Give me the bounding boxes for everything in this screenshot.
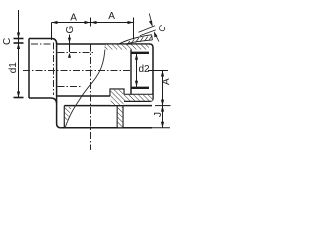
left cylinder bottom [29,98,57,103]
svg-text:A: A [70,13,77,24]
broken-out section boundary arc [65,44,106,128]
svg-text:d1: d1 [8,62,19,74]
hidden bore line upper [58,52,95,54]
flange bottom [61,127,152,129]
hatch regions [65,45,152,128]
svg-text:A: A [108,11,115,22]
svg-text:G: G [65,26,76,34]
dimension C (left) [14,10,24,43]
svg-text:d2: d2 [139,64,151,75]
svg-text:J: J [153,112,164,117]
leg left wall partial hatch [65,107,72,122]
horizontal main axis [23,70,130,72]
cap top right corner + right face [124,44,153,101]
dimension d1 (left) [14,43,24,98]
leg right wall [118,107,123,127]
cap cavity left wall [130,44,132,96]
hidden bore line lower [58,86,83,88]
svg-text:A: A [161,78,172,85]
barrel bottom [57,95,110,97]
hatch block left/top [110,89,124,96]
top band [104,45,149,50]
dimension d2 [137,54,169,87]
barrel top [56,43,150,45]
bottom L block [111,90,153,105]
dimension C (top right, tilted) [139,14,159,42]
dimension A2 (top right) [91,18,134,40]
leg inner cavity [63,106,65,128]
svg-text:C: C [2,38,13,45]
gasket washer (tilted, hatched) [119,35,153,46]
left cylinder left edge [28,39,30,99]
bore thread bars [131,52,149,54]
center lines (dash-dot) [23,43,130,151]
left cylinder top [29,39,57,45]
dimension A3 (right) [155,71,171,106]
body bottom face / flange top [64,105,152,107]
small dash-dot at y44 left [31,43,51,45]
leg hatched wall edges [116,107,118,128]
left cylinder axis [53,43,55,96]
dimension A1 (top left) [52,18,91,41]
leg axis [90,45,92,151]
part body outline [29,39,153,128]
dimension J (right) [152,106,170,128]
junction vertical / leg outer left [57,43,61,128]
cap/band inner bottom [124,93,153,95]
